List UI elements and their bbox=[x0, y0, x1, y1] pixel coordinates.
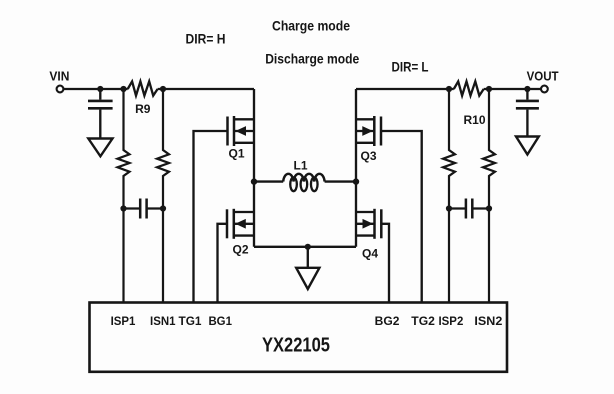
wire Q4 gate to BG2 pin bbox=[381, 224, 389, 303]
svg-text:R10: R10 bbox=[463, 113, 485, 127]
node source ground tap bbox=[305, 244, 311, 250]
wire VIN to R9 bbox=[63, 88, 127, 90]
svg-text:ISN1: ISN1 bbox=[150, 314, 176, 328]
terminal VOUT bbox=[527, 70, 559, 93]
svg-text:VOUT: VOUT bbox=[527, 70, 559, 84]
svg-text:DIR= H: DIR= H bbox=[186, 31, 226, 47]
node switch right bbox=[353, 178, 359, 184]
wire R9 to Q1 drain corner bbox=[158, 88, 254, 90]
transistor Q1 bbox=[228, 116, 255, 161]
node input cap tap bbox=[97, 86, 103, 92]
node ISP1 cap tap bbox=[120, 205, 126, 211]
wire Q3 drain bus bbox=[355, 89, 357, 182]
node ISP2 cap tap bbox=[446, 205, 452, 211]
svg-text:Q1: Q1 bbox=[228, 147, 244, 161]
wire Q3 drain to R10 bbox=[356, 88, 454, 90]
wire Q2 source bus bbox=[253, 182, 255, 247]
svg-text:YX22105: YX22105 bbox=[262, 335, 330, 357]
resistor Rs2 (ISN1 sense) bbox=[157, 89, 169, 303]
transistor Q3 bbox=[356, 116, 381, 163]
svg-text:BG1: BG1 bbox=[208, 314, 232, 328]
svg-text:ISP2: ISP2 bbox=[439, 314, 464, 328]
capacitor C-sense1 bbox=[124, 199, 164, 219]
node switch left bbox=[251, 178, 257, 184]
wire switch node to L1 bbox=[254, 180, 283, 182]
resistor R9 bbox=[128, 81, 158, 116]
inductor L1 bbox=[283, 159, 324, 192]
resistor Rs1 (ISP1 sense) bbox=[118, 89, 130, 303]
svg-text:VIN: VIN bbox=[49, 69, 69, 83]
transistor Q4 bbox=[356, 209, 381, 261]
svg-text:BG2: BG2 bbox=[375, 314, 400, 328]
capacitor C-sense2 bbox=[449, 199, 489, 219]
node R10 left / ISP2 tap bbox=[446, 86, 452, 92]
resistor Rs4 (ISN2 sense) bbox=[483, 89, 495, 303]
svg-text:ISP1: ISP1 bbox=[111, 314, 136, 328]
svg-text:Q4: Q4 bbox=[362, 247, 378, 261]
wire Q1 drain bus bbox=[253, 89, 255, 182]
wire Q2-Q4 source rail bbox=[254, 246, 356, 248]
ground Cin bbox=[88, 139, 112, 157]
wire L1 to right switch node bbox=[325, 180, 356, 182]
ground Cout bbox=[516, 137, 539, 155]
wire Q3 gate to TG2 pin bbox=[381, 131, 422, 303]
node ISN2 cap tap bbox=[486, 205, 492, 211]
svg-text:TG2: TG2 bbox=[411, 314, 435, 328]
svg-text:Q3: Q3 bbox=[360, 149, 376, 163]
node output cap tap bbox=[524, 86, 530, 92]
capacitor Cout bbox=[516, 89, 539, 137]
svg-text:TG1: TG1 bbox=[179, 314, 202, 328]
capacitor Cin bbox=[88, 89, 113, 139]
resistor Rs3 (ISP2 sense) bbox=[443, 89, 455, 303]
wire R10 to VOUT bbox=[484, 88, 541, 90]
node R10 right / ISN2 tap bbox=[486, 86, 492, 92]
node R9 left / ISP1 tap bbox=[120, 86, 126, 92]
svg-text:ISN2: ISN2 bbox=[474, 314, 502, 328]
IC U1 YX22105 bbox=[90, 303, 508, 372]
wire Q4 source bus bbox=[355, 182, 357, 247]
svg-text:L1: L1 bbox=[293, 159, 307, 173]
svg-text:Charge mode: Charge mode bbox=[272, 17, 350, 33]
svg-text:Discharge mode: Discharge mode bbox=[265, 50, 359, 66]
wire Q1 gate to TG1 pin bbox=[194, 131, 228, 303]
resistor R10 bbox=[454, 81, 486, 127]
transistor Q2 bbox=[227, 209, 254, 257]
svg-text:R9: R9 bbox=[135, 102, 151, 116]
node ISN1 cap tap bbox=[160, 205, 166, 211]
ground source rail bbox=[296, 247, 319, 289]
wire Q2 gate to BG1 pin bbox=[218, 224, 228, 303]
node R9 right / ISN1 tap bbox=[160, 86, 166, 92]
terminal VIN bbox=[49, 69, 69, 92]
svg-text:DIR= L: DIR= L bbox=[392, 59, 429, 75]
svg-text:Q2: Q2 bbox=[232, 243, 248, 257]
